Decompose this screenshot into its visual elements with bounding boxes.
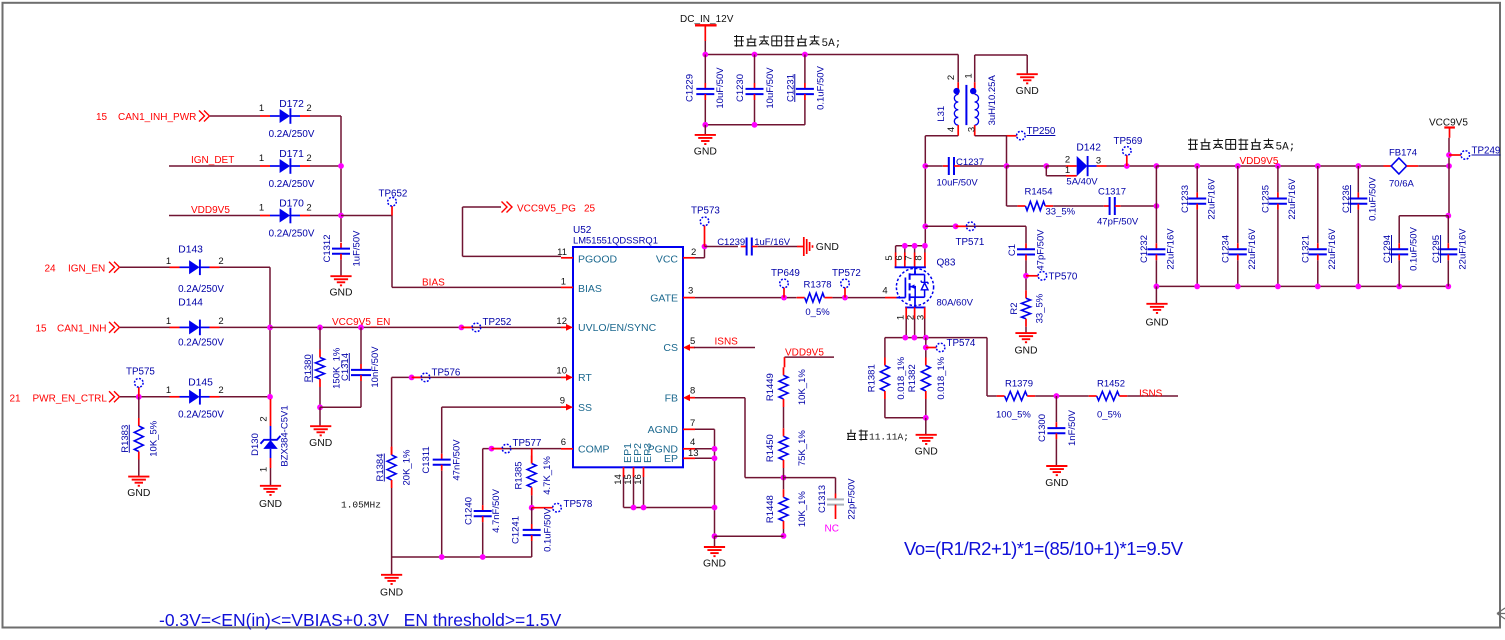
net label VDD9V5 divider — [785, 348, 824, 359]
wire r1384 lead — [391, 447, 393, 456]
svg-text:R1384: R1384 — [375, 454, 386, 482]
wire — [391, 377, 393, 446]
junction — [922, 243, 928, 249]
svg-text:1: 1 — [166, 256, 171, 267]
wire — [884, 399, 886, 418]
svg-text:11.11A;: 11.11A; — [869, 432, 909, 443]
wire — [319, 387, 321, 407]
diode D142 — [1046, 143, 1106, 188]
svg-text:2: 2 — [218, 385, 223, 396]
wire — [884, 338, 886, 358]
wire — [441, 407, 443, 454]
wire — [1107, 165, 1157, 167]
op-amp U52 LM51551QDSSRQ1 body — [573, 225, 683, 467]
svg-text:GND: GND — [816, 242, 839, 253]
svg-text:7: 7 — [690, 418, 695, 429]
svg-text:ISNS: ISNS — [1139, 389, 1163, 400]
svg-text:C1239: C1239 — [717, 237, 745, 248]
junction — [712, 505, 718, 511]
wire — [832, 297, 885, 299]
svg-text:BIAS: BIAS — [422, 277, 445, 288]
wire — [975, 135, 1007, 137]
svg-text:2: 2 — [218, 256, 223, 267]
wire — [1155, 260, 1157, 286]
svg-text:GND: GND — [703, 559, 726, 570]
wire — [783, 478, 785, 490]
annotation chinese overcurrent 5A #1 — [734, 35, 841, 50]
wire — [754, 100, 756, 125]
net label BIAS — [422, 277, 445, 288]
test point TP649 — [771, 268, 800, 298]
svg-text:IGN_EN: IGN_EN — [68, 264, 105, 275]
wire gate red lead — [885, 297, 897, 299]
junction — [1235, 284, 1241, 290]
svg-text:0.018_1%: 0.018_1% — [936, 356, 947, 399]
diode D143 — [166, 245, 224, 296]
wire — [1357, 210, 1359, 287]
power flag DC_IN_12V — [680, 14, 734, 41]
wire — [925, 338, 927, 358]
wire — [1447, 260, 1449, 286]
junction — [1023, 273, 1029, 279]
svg-text:C1294: C1294 — [1382, 235, 1393, 263]
wire — [1447, 216, 1449, 244]
capacitor C1294 — [1382, 226, 1420, 270]
svg-text:VCC: VCC — [656, 254, 679, 266]
svg-text:10nF/50V: 10nF/50V — [370, 346, 381, 388]
svg-text:5A/40V: 5A/40V — [1066, 177, 1098, 188]
junction — [1446, 152, 1452, 158]
net label PWR_EN_CTRL — [10, 394, 108, 405]
resistor R1450 — [765, 428, 808, 468]
svg-text:TP573: TP573 — [691, 206, 720, 217]
wire — [392, 286, 561, 288]
wire — [1237, 260, 1239, 286]
svg-text:TP649: TP649 — [771, 268, 800, 279]
ferrite bead FB174 — [1384, 148, 1419, 190]
svg-text:R1382: R1382 — [907, 364, 918, 392]
wire — [1398, 260, 1400, 286]
junction — [409, 375, 415, 381]
svg-text:3: 3 — [915, 315, 926, 320]
svg-text:3uH/10.25A: 3uH/10.25A — [987, 75, 998, 126]
svg-text:Vo=(R1/R2+1)*1=(85/10+1)*1=9.5: Vo=(R1/R2+1)*1=(85/10+1)*1=9.5V — [904, 538, 1184, 559]
svg-text:C1230: C1230 — [735, 74, 746, 102]
svg-text:0.1uF/50V: 0.1uF/50V — [543, 507, 554, 551]
wire — [441, 471, 443, 557]
wire — [360, 381, 362, 407]
wire — [804, 100, 806, 125]
sheet connector IGN_EN — [109, 262, 120, 273]
junction — [1194, 284, 1200, 290]
junction — [136, 394, 142, 400]
junction — [1124, 163, 1130, 169]
junction — [842, 295, 848, 301]
test point TP569 — [1114, 136, 1143, 166]
transformer L31 — [936, 73, 998, 135]
junction — [1194, 163, 1200, 169]
svg-text:SS: SS — [578, 402, 592, 414]
junction — [1445, 213, 1451, 219]
pin 7 AGND — [648, 418, 696, 436]
test point TP571 — [956, 222, 985, 248]
resistor R2 — [1009, 290, 1046, 327]
svg-text:C1311: C1311 — [421, 446, 432, 473]
wire — [1317, 260, 1319, 286]
wire — [804, 55, 806, 84]
junction — [338, 163, 344, 169]
capacitor C1321 — [1301, 228, 1339, 270]
net label IGN_DET — [191, 155, 234, 166]
svg-text:8: 8 — [690, 386, 695, 397]
capacitor C1230 — [735, 67, 776, 109]
svg-text:TP570: TP570 — [1049, 272, 1078, 283]
wire r1385 lead — [531, 449, 533, 464]
junction — [923, 345, 929, 351]
sheet connector VCC9V5_PG — [502, 202, 513, 213]
svg-text:C1231: C1231 — [785, 74, 796, 102]
svg-text:5A;: 5A; — [1276, 141, 1296, 153]
sheet connector CAN1_INH — [109, 322, 120, 333]
wire — [310, 215, 341, 217]
svg-text:10uF/50V: 10uF/50V — [765, 67, 776, 109]
sheet connector CAN1_INH_PWR — [199, 111, 210, 122]
resistor R1452 — [1089, 392, 1128, 401]
svg-text:47pF/50V: 47pF/50V — [1036, 229, 1047, 271]
svg-text:C1241: C1241 — [510, 516, 521, 544]
wire — [986, 338, 988, 396]
svg-text:10K_1%: 10K_1% — [797, 491, 808, 527]
svg-text:1: 1 — [259, 203, 264, 214]
svg-text:0.2A/250V: 0.2A/250V — [269, 229, 315, 240]
svg-text:C1314: C1314 — [340, 353, 351, 381]
test point TP574 — [926, 338, 976, 352]
svg-text:C1235: C1235 — [1261, 185, 1272, 213]
junction — [529, 505, 535, 511]
wire — [715, 535, 784, 537]
junction — [1446, 163, 1452, 169]
pin 15 EP2 — [623, 443, 644, 485]
svg-text:1: 1 — [166, 316, 171, 327]
svg-text:C1295: C1295 — [1431, 235, 1442, 263]
capacitor C1295 — [1431, 228, 1469, 270]
svg-text:UVLO/EN/SYNC: UVLO/EN/SYNC — [578, 322, 657, 334]
svg-text:47pF/50V: 47pF/50V — [1097, 217, 1139, 228]
svg-text:Q83: Q83 — [937, 258, 956, 269]
wire — [1357, 166, 1359, 193]
resistor R1448 — [765, 489, 808, 529]
svg-text:5: 5 — [690, 336, 695, 347]
test point TP577 — [492, 438, 542, 453]
svg-text:0_5%: 0_5% — [805, 307, 830, 318]
svg-text:C1313: C1313 — [817, 485, 828, 513]
svg-text:D171: D171 — [279, 149, 304, 160]
wire — [745, 477, 784, 479]
svg-text:C1321: C1321 — [1301, 235, 1312, 263]
junction — [702, 52, 708, 58]
svg-text:2: 2 — [258, 416, 269, 421]
svg-text:RT: RT — [578, 372, 592, 384]
svg-text:2: 2 — [306, 203, 311, 214]
wire — [785, 356, 835, 358]
svg-text:25: 25 — [584, 204, 596, 215]
wire — [1155, 166, 1157, 206]
svg-text:22uF/16V: 22uF/16V — [1247, 228, 1258, 270]
wire — [1196, 166, 1198, 193]
wire vdd9v5 lead — [784, 357, 786, 367]
wire — [392, 556, 532, 558]
wire — [270, 326, 561, 328]
wire — [120, 396, 170, 398]
pin 14 EP1 — [613, 443, 634, 485]
ground GND C1239 — [804, 237, 839, 256]
pin 9 SS — [560, 396, 592, 415]
junction — [922, 223, 928, 229]
sheet connector PWR_EN_CTRL — [109, 391, 120, 402]
wire — [310, 115, 341, 117]
test point TP575 — [126, 367, 155, 397]
wire — [987, 395, 997, 397]
svg-text:33_5%: 33_5% — [1035, 293, 1046, 323]
svg-text:4: 4 — [690, 437, 695, 448]
wire — [1418, 165, 1449, 167]
wire — [391, 216, 393, 288]
wire — [320, 406, 361, 408]
wire — [783, 529, 785, 536]
svg-text:22uF/16V: 22uF/16V — [1327, 228, 1338, 270]
wire — [1127, 395, 1178, 397]
svg-text:2: 2 — [218, 316, 223, 327]
label R1452 — [1097, 379, 1125, 421]
ground GND R1380 — [309, 426, 332, 449]
svg-text:1: 1 — [258, 467, 269, 472]
wire — [704, 41, 706, 55]
wire — [1448, 138, 1450, 166]
junction — [1043, 163, 1049, 169]
svg-text:TP571: TP571 — [956, 237, 985, 248]
wire — [1156, 165, 1383, 167]
svg-text:1: 1 — [166, 385, 171, 396]
wire — [1155, 206, 1157, 243]
wire — [783, 407, 785, 428]
resistor R1380 — [303, 347, 343, 389]
wire — [1277, 210, 1279, 287]
svg-text:VDD9V5: VDD9V5 — [1240, 156, 1279, 167]
annotation Vo formula — [904, 538, 1184, 559]
wire — [925, 399, 927, 418]
annotation current limit 11.11A — [847, 430, 909, 443]
svg-text:C1312: C1312 — [322, 235, 333, 263]
capacitor C1237 — [943, 157, 960, 175]
wire — [783, 468, 785, 478]
annotation chinese overcurrent 5A #2 — [1188, 139, 1295, 154]
junction — [802, 52, 808, 58]
svg-text:9: 9 — [560, 396, 565, 407]
wire — [391, 557, 393, 574]
wire — [705, 246, 739, 248]
svg-text:BZX384-C5V1: BZX384-C5V1 — [279, 405, 290, 466]
svg-text:3: 3 — [966, 127, 977, 132]
ground GND D130 — [259, 486, 282, 510]
wire — [531, 541, 533, 557]
junction — [358, 325, 364, 331]
wire — [925, 135, 958, 137]
pin 1 BIAS — [561, 277, 602, 296]
wire — [270, 468, 272, 485]
junction — [459, 325, 465, 331]
svg-text:TP577: TP577 — [513, 438, 542, 449]
ground GND R1382 — [915, 435, 938, 458]
svg-text:R1380: R1380 — [303, 354, 314, 382]
wire — [633, 477, 635, 508]
svg-text:GND: GND — [1145, 318, 1168, 329]
capacitor C1234 — [1221, 228, 1259, 270]
label C1237 — [937, 157, 985, 189]
label R1454 — [1025, 187, 1076, 218]
svg-text:R1385: R1385 — [513, 461, 524, 489]
svg-text:-0.3V=<EN(in)<=VBIAS+0.3V EN: -0.3V=<EN(in)<=VBIAS+0.3V EN threshold>=… — [159, 610, 562, 630]
wire — [1399, 215, 1448, 217]
wire — [885, 417, 926, 419]
svg-text:4: 4 — [882, 286, 887, 297]
svg-text:10: 10 — [556, 366, 567, 377]
wire — [442, 406, 561, 408]
transistor Q83 drain pins — [884, 246, 926, 267]
svg-text:1nF/50V: 1nF/50V — [1067, 409, 1078, 446]
wire — [695, 448, 715, 450]
wire — [1026, 55, 1028, 74]
junction — [1054, 393, 1060, 399]
svg-text:D144: D144 — [178, 298, 203, 309]
transistor Q83 source pins — [896, 307, 927, 337]
svg-text:IGN_DET: IGN_DET — [191, 155, 234, 166]
svg-text:C1300: C1300 — [1037, 414, 1048, 442]
net label VCC9V5_PG — [517, 204, 596, 215]
svg-text:CAN1_INH_PWR: CAN1_INH_PWR — [118, 112, 196, 123]
wire — [957, 55, 959, 83]
svg-text:ISNS: ISNS — [715, 337, 739, 348]
junction — [1154, 284, 1160, 290]
wire — [1277, 166, 1279, 193]
test point TP578 — [532, 499, 593, 512]
wire — [714, 536, 716, 546]
wire — [360, 327, 362, 364]
label C1317 — [1097, 187, 1139, 228]
wire — [340, 116, 342, 242]
svg-text:R1454: R1454 — [1025, 187, 1053, 198]
capacitor C1241 — [510, 507, 553, 551]
capacitor C1311 — [421, 439, 463, 481]
junction — [712, 455, 718, 461]
svg-text:0.018_1%: 0.018_1% — [896, 356, 907, 399]
capacitor C1239 — [717, 237, 791, 256]
wire — [1055, 439, 1057, 465]
wire — [695, 428, 715, 430]
wire — [462, 207, 464, 256]
resistor R1379 — [997, 392, 1036, 401]
svg-text:D172: D172 — [279, 99, 304, 110]
junction — [781, 295, 787, 301]
svg-text:LM51551QDSSRQ1: LM51551QDSSRQ1 — [573, 235, 658, 246]
wire — [269, 267, 271, 397]
test point TP573 — [691, 206, 720, 247]
resistor R1382 — [907, 356, 947, 399]
junction — [1445, 284, 1451, 290]
wire — [960, 165, 1007, 167]
junction — [712, 533, 718, 539]
junction — [1004, 163, 1010, 169]
capacitor C1317 — [1104, 197, 1121, 215]
net label IGN_EN — [45, 264, 106, 275]
wire — [319, 407, 321, 425]
svg-text:PWR_EN_CTRL: PWR_EN_CTRL — [33, 394, 108, 405]
svg-text:0.2A/250V: 0.2A/250V — [178, 410, 224, 421]
svg-text:6: 6 — [561, 437, 566, 448]
junction — [902, 335, 908, 341]
wire — [1007, 165, 1047, 167]
power flag VCC9V5 — [1429, 118, 1468, 138]
svg-text:GND: GND — [380, 588, 403, 599]
wire — [340, 260, 342, 276]
svg-text:10K_5%: 10K_5% — [148, 420, 159, 456]
pin 16 EP3 — [633, 443, 654, 485]
svg-text:C1317: C1317 — [1098, 187, 1126, 198]
wire — [169, 215, 260, 217]
svg-text:DC_IN_12V: DC_IN_12V — [680, 14, 734, 25]
diode D144 — [166, 298, 224, 349]
capacitor C1233 — [1180, 178, 1218, 220]
wire — [623, 477, 625, 508]
svg-text:2: 2 — [306, 153, 311, 164]
svg-text:TP572: TP572 — [832, 268, 861, 279]
test point TP572 — [832, 268, 861, 298]
junction — [1275, 163, 1281, 169]
wire — [1121, 205, 1157, 207]
wire — [695, 297, 797, 299]
svg-text:0.1uF/50V: 0.1uF/50V — [1409, 226, 1420, 270]
wire — [531, 495, 533, 507]
wire — [1006, 166, 1008, 206]
junction — [267, 394, 273, 400]
svg-text:VCC9V5_PG: VCC9V5_PG — [517, 204, 576, 215]
svg-text:0.2A/250V: 0.2A/250V — [269, 179, 315, 190]
ground GND C1312 — [329, 276, 352, 298]
diode D145 — [166, 378, 224, 421]
wire — [957, 54, 959, 56]
svg-text:TP569: TP569 — [1114, 136, 1143, 147]
junction — [338, 213, 344, 219]
svg-text:NC: NC — [825, 524, 839, 535]
svg-text:C1234: C1234 — [1221, 235, 1232, 263]
wire — [705, 124, 805, 126]
svg-text:3: 3 — [688, 286, 693, 297]
svg-text:22uF/16V: 22uF/16V — [1287, 178, 1298, 220]
svg-text:TP578: TP578 — [564, 499, 593, 510]
svg-text:0.2A/250V: 0.2A/250V — [178, 284, 224, 295]
wire — [1053, 205, 1104, 207]
svg-text:C1240: C1240 — [464, 497, 475, 525]
junction — [1315, 163, 1321, 169]
wire — [1155, 286, 1157, 303]
resistor R1384 — [375, 447, 413, 488]
svg-text:22uF/16V: 22uF/16V — [1207, 178, 1218, 220]
resistor R1378 — [797, 279, 833, 318]
svg-text:12: 12 — [556, 316, 567, 327]
capacitor C1312 — [322, 230, 363, 267]
wire — [694, 347, 755, 349]
test point TP652 — [379, 189, 408, 216]
wire — [1156, 285, 1448, 287]
